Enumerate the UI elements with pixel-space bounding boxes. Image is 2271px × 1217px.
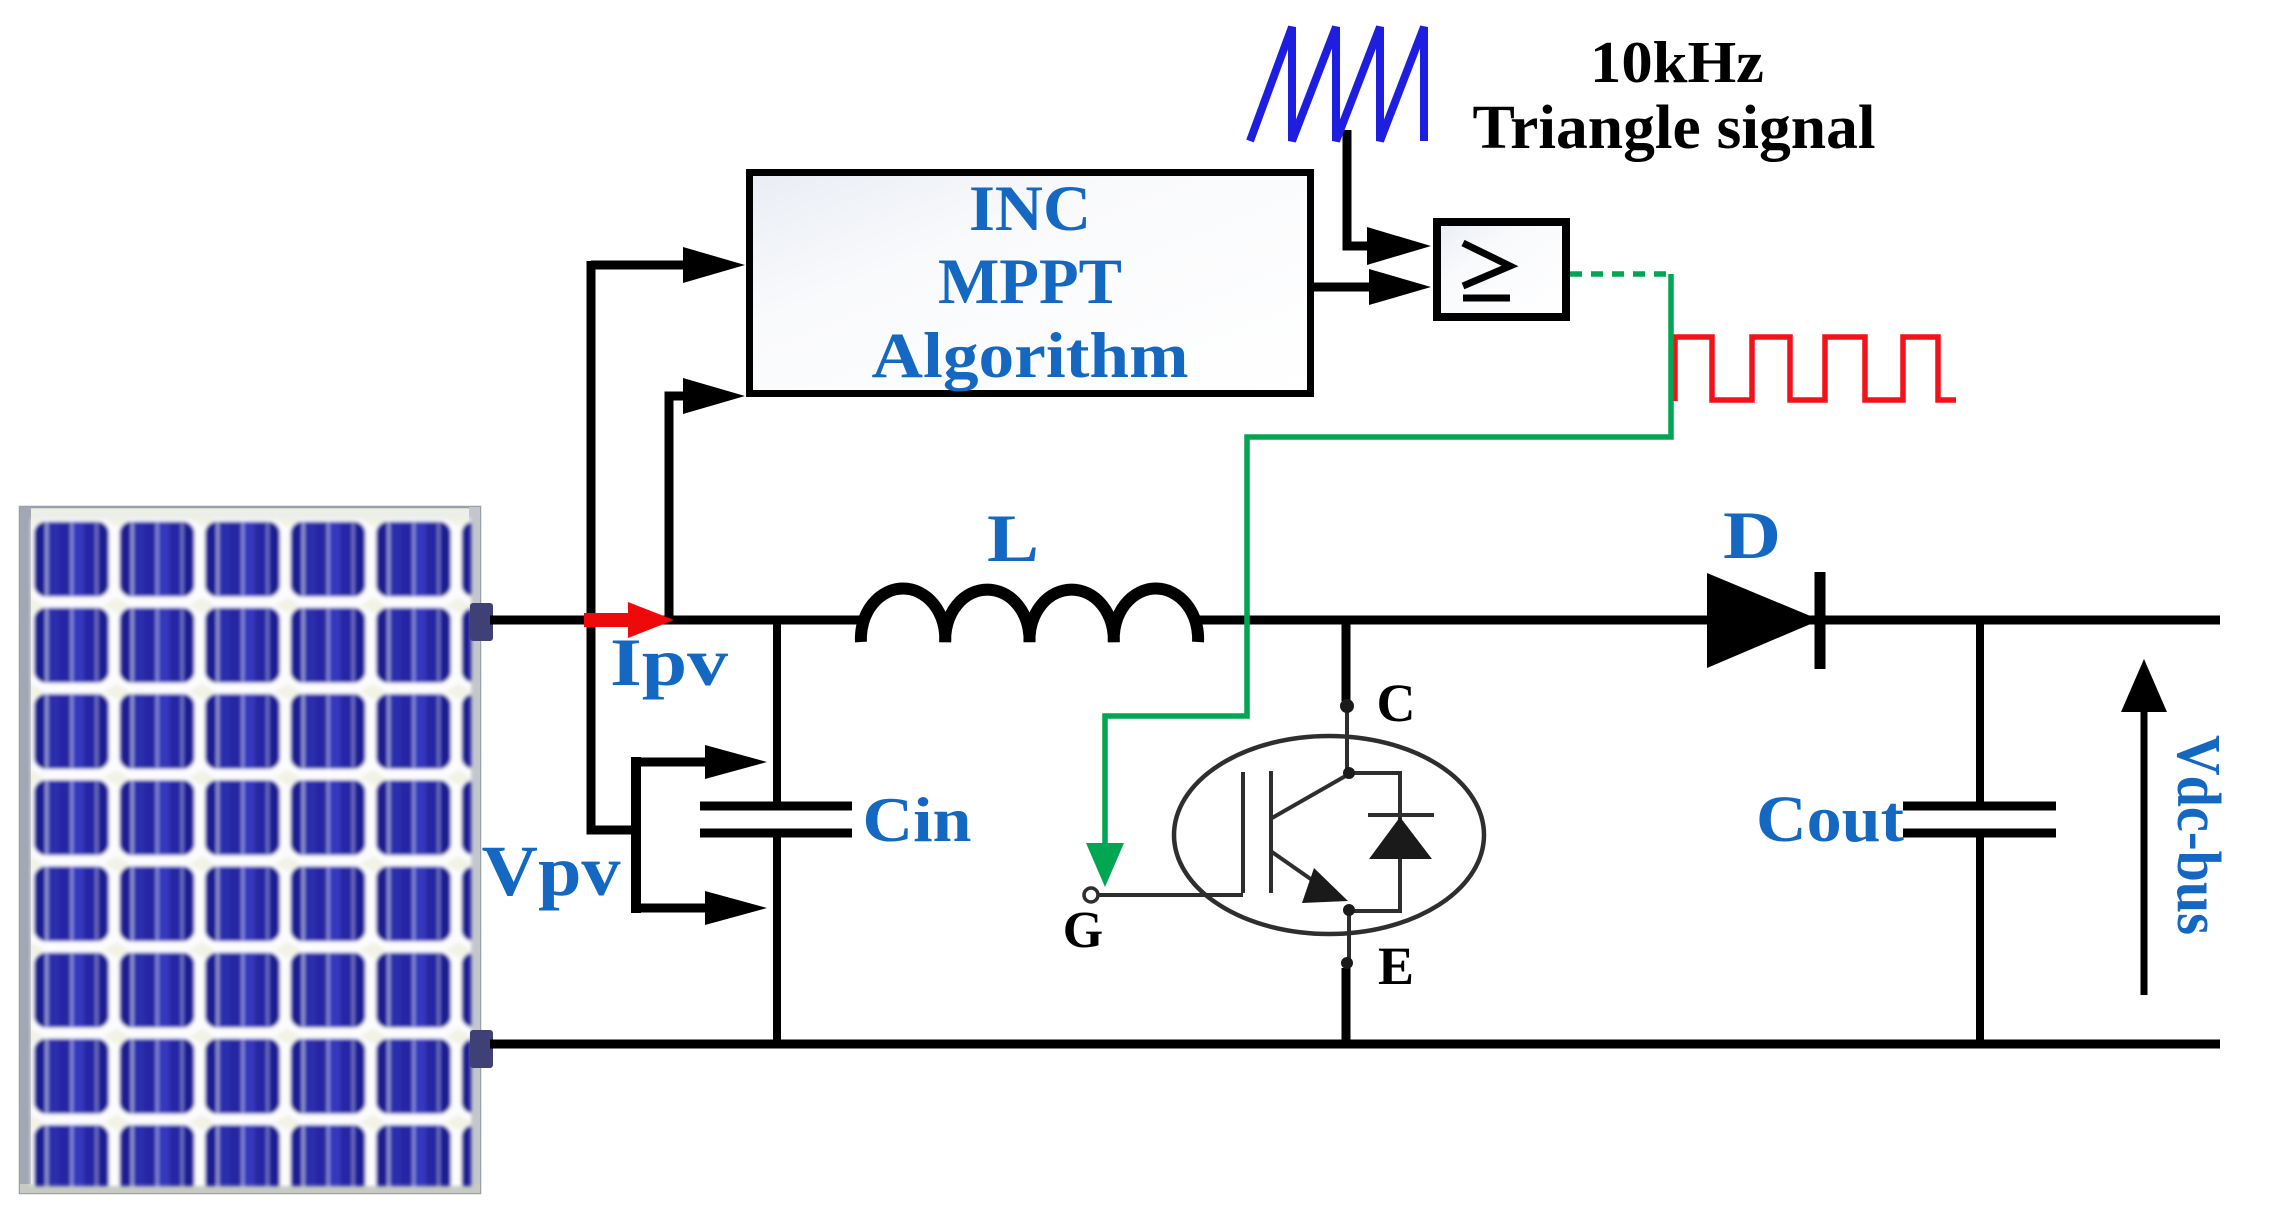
svg-text:INC: INC [969,173,1091,245]
svg-text:Vpv: Vpv [482,831,621,911]
svg-text:Cout: Cout [1756,783,1904,856]
svg-text:E: E [1378,936,1414,996]
svg-text:Algorithm: Algorithm [872,320,1189,392]
svg-text:L: L [987,500,1039,576]
svg-text:MPPT: MPPT [938,246,1122,318]
svg-text:Ipv: Ipv [610,624,728,700]
svg-text:G: G [1063,902,1103,959]
svg-text:Vdc-bus: Vdc-bus [2164,735,2232,935]
svg-text:Triangle signal: Triangle signal [1473,94,1876,162]
svg-text:Cin: Cin [863,784,972,855]
svg-text:10kHz: 10kHz [1590,29,1764,95]
svg-text:C: C [1377,673,1416,733]
svg-text:D: D [1723,497,1781,573]
